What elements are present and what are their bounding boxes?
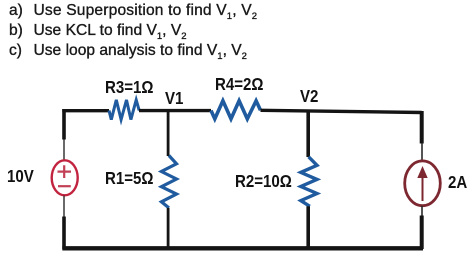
voltage source 10V [52,160,78,195]
bottom wire [62,246,423,250]
question line b [9,21,23,40]
wire top-left horizontal segment [62,109,109,112]
current source arrow head [417,166,427,178]
resistor R1 [161,156,176,208]
label R4=2ohm [215,74,263,94]
wire thin stub to current source top [421,143,423,162]
question line a [9,1,23,20]
minus sign of source [58,185,71,187]
question line c [9,41,22,60]
plus sign of source [58,165,72,178]
resistor R2 [301,157,317,207]
wire thin stub to voltage source top [63,140,65,162]
node V2 label [300,86,318,106]
resistor R3 [109,100,139,120]
wire thin stub below current source [421,206,423,216]
label R2=10ohm [235,171,292,191]
node V2 stub from top wire [306,111,310,157]
label R1=5ohm [105,168,153,188]
wire from R4 to top-right corner (slight slope) [261,110,422,112]
label R3=1ohm [105,77,153,97]
wire right vertical (bottom thick) [420,216,424,250]
wire right vertical (top thick) [420,111,424,144]
wire left vertical (top thick) [62,109,66,140]
wire between R3 and R4 [139,109,211,112]
node V1 label [165,88,183,108]
current source arrow shaft [422,176,424,202]
resistor R4 [211,101,261,119]
wire below R1 to bottom [167,208,170,249]
node V1 stub from top wire [167,111,170,156]
label 10V [7,166,34,186]
wire left vertical (bottom thick) [62,217,66,250]
current source 2A [405,161,441,206]
wire thin stub below voltage source [63,196,65,218]
label 2A [448,172,467,192]
wire below R2 to bottom [306,206,310,249]
